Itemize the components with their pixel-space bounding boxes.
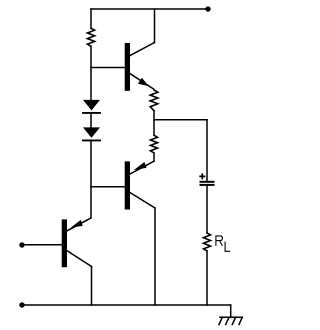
wire Q2 base — [91, 186, 125, 188]
wire bottom rail to ground — [230, 305, 232, 317]
wire Q1 base — [91, 67, 125, 69]
wire R3 diagonal to Q2 emitter — [130, 161, 154, 174]
transistor Q1 (NPN, top) — [125, 43, 155, 91]
wire Q1 collector to top rail — [154, 9, 156, 43]
wire C1 to RL — [206, 186, 208, 233]
resistor RL — [204, 233, 211, 251]
wire Q3 collector to bottom rail — [91, 267, 93, 306]
resistor R2 (Q1 emitter) — [150, 90, 158, 111]
diode D2 — [83, 127, 100, 140]
node input terminal — [19, 242, 24, 247]
wire D2 down to Q2 base junction and Q3 emitter — [90, 140, 92, 218]
diode D1 — [83, 100, 100, 113]
wire R2 to output junction — [153, 111, 155, 120]
node bottom-left terminal — [19, 302, 24, 307]
wire output junction to capacitor — [154, 119, 207, 121]
node top-right supply terminal — [205, 6, 210, 11]
transistor Q2 (PNP, middle) — [125, 161, 155, 209]
resistor R3 (Q2 emitter) — [150, 135, 157, 153]
wire Q3 base input — [24, 244, 62, 246]
transistor Q3 (PNP, bottom-left) — [62, 218, 92, 267]
wire RL to bottom rail — [206, 251, 208, 305]
wire from top rail down to R1 — [90, 9, 92, 28]
ground — [219, 317, 242, 324]
capacitor C1 wire from output junction — [206, 120, 208, 181]
wire D1 to D2 — [90, 113, 92, 128]
wire bottom rail — [24, 304, 231, 306]
wire Q2 collector to bottom rail — [154, 208, 156, 305]
wire junction down to R3 — [153, 120, 155, 135]
wire R3 to Q2 emitter — [153, 153, 155, 161]
wire top supply rail — [91, 8, 208, 10]
wire R1 to Q1 base and diode D1 — [90, 46, 92, 100]
resistor R1 — [87, 28, 94, 46]
label RL — [216, 236, 230, 251]
capacitor C1 — [199, 173, 213, 185]
